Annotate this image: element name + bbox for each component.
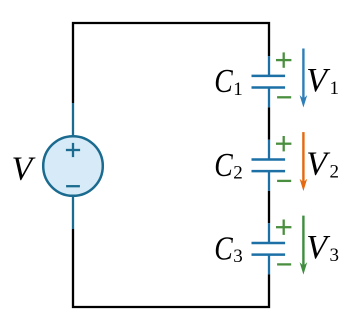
svg-text:2: 2 <box>233 163 243 184</box>
svg-text:1: 1 <box>233 79 243 100</box>
svg-text:C: C <box>214 63 233 100</box>
svg-text:C: C <box>214 230 233 267</box>
svg-text:C: C <box>214 147 233 184</box>
svg-text:2: 2 <box>330 162 340 183</box>
svg-text:1: 1 <box>330 78 340 99</box>
svg-text:3: 3 <box>233 246 243 267</box>
svg-text:3: 3 <box>330 245 340 266</box>
